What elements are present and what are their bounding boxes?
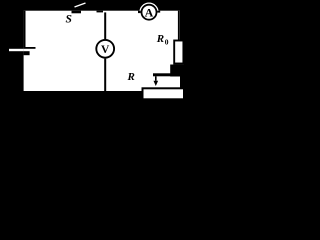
svg-text:V: V: [101, 44, 110, 56]
svg-text:S: S: [66, 13, 72, 25]
svg-text:0: 0: [165, 37, 169, 46]
svg-text:R: R: [156, 33, 164, 45]
svg-text:A: A: [145, 6, 154, 20]
svg-text:R: R: [127, 71, 135, 83]
